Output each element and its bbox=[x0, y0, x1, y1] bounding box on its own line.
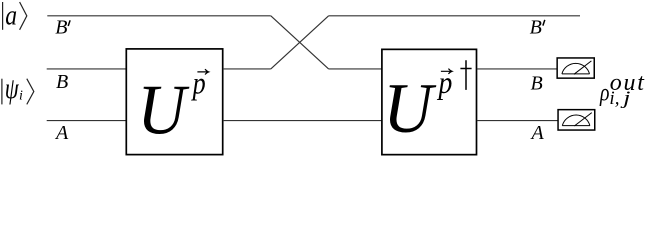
swap crossing diagonal up bbox=[271, 16, 329, 69]
gate U2 label U^p dagger bbox=[383, 60, 471, 148]
svg-text:U: U bbox=[137, 70, 189, 149]
svg-text:B: B bbox=[56, 71, 68, 93]
wire B left segment bbox=[47, 68, 127, 70]
wire A right segment (U2 to meter) bbox=[477, 120, 558, 122]
meter M2 on wire A bbox=[558, 110, 595, 130]
gate U1 box bbox=[126, 49, 222, 155]
svg-text:ρ: ρ bbox=[599, 78, 609, 106]
ket |a> input label bbox=[3, 0, 27, 31]
wire A left segment bbox=[47, 120, 127, 122]
wire B middle segment (U1 to swap) bbox=[223, 68, 271, 70]
svg-text:U: U bbox=[383, 70, 437, 148]
svg-text:B: B bbox=[55, 16, 67, 38]
svg-text:a: a bbox=[5, 0, 17, 31]
svg-text:A: A bbox=[530, 122, 545, 144]
svg-text:,: , bbox=[615, 88, 620, 109]
svg-text:i: i bbox=[19, 88, 23, 103]
svg-text:B: B bbox=[531, 73, 543, 95]
svg-text:ψ: ψ bbox=[5, 72, 20, 105]
wire B' right segment bbox=[329, 15, 580, 17]
svg-text:A: A bbox=[54, 122, 69, 144]
output label rho_ij^out bbox=[599, 70, 646, 109]
svg-text:B: B bbox=[530, 17, 542, 39]
meter M1 on wire B bbox=[557, 58, 594, 78]
gate U1 label U^p (vector p) bbox=[137, 66, 208, 148]
swap crossing diagonal down bbox=[271, 16, 329, 69]
wire A through segment (U1 to U2) bbox=[223, 120, 382, 122]
wire B' left segment bbox=[47, 15, 270, 17]
gate U2 box bbox=[382, 49, 477, 154]
wire B right segment (U2 to meter) bbox=[477, 68, 557, 70]
wire B segment (swap to U2) bbox=[329, 68, 382, 70]
ket |psi_i> input label bbox=[2, 72, 34, 105]
